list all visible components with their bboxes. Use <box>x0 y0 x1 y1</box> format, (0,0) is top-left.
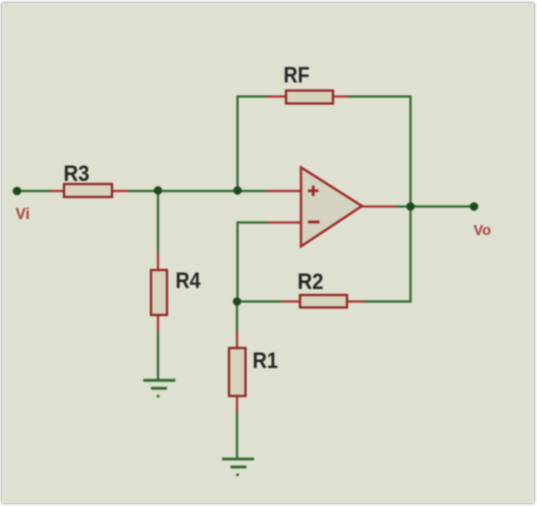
resistor R3 <box>64 184 112 197</box>
wire op-amp plus input lead (red) <box>266 190 301 192</box>
wire node A down to R4 (green) <box>157 191 159 253</box>
resistor R1 <box>229 348 246 396</box>
label RF <box>284 63 310 88</box>
ground under R1 <box>222 459 254 476</box>
label Vo <box>474 223 492 239</box>
wire op-amp minus corner horizontal (green) <box>237 221 268 223</box>
wire R1 to ground (green) <box>236 412 238 458</box>
op-amp U1 body <box>301 167 362 246</box>
label R2 <box>298 269 324 294</box>
label R3 <box>64 161 90 186</box>
svg-text:Vo: Vo <box>474 223 492 239</box>
wire R1 bottom lead (red) <box>236 396 238 412</box>
label Vi <box>16 206 30 223</box>
wire R3 left lead (red) <box>50 190 64 192</box>
resistor RF <box>286 91 333 104</box>
label R1 <box>253 348 279 373</box>
node Vi terminal dot <box>13 187 22 196</box>
wire op-amp output lead (red) <box>362 205 396 207</box>
wire RF right lead (red) <box>333 95 348 97</box>
wire R3 right lead (red) <box>112 190 128 192</box>
wire R4 bottom lead (red) <box>157 315 159 331</box>
svg-text:R3: R3 <box>64 161 90 186</box>
wire R3 to node B (green) <box>128 190 266 192</box>
wire R1 top lead (red) <box>236 331 238 348</box>
wire R4 top lead (red) <box>157 253 159 270</box>
wire R2 row left segment (green) <box>237 300 282 302</box>
svg-text:Vi: Vi <box>16 206 30 223</box>
svg-text:R4: R4 <box>176 268 201 293</box>
svg-text:R2: R2 <box>298 269 324 294</box>
node Vo terminal dot <box>470 202 479 211</box>
wire output to Vo (green) <box>396 205 474 207</box>
node D junction dot <box>233 297 241 305</box>
wire node D down (green) <box>236 302 238 331</box>
wire node B up to RF row (green) <box>236 96 238 191</box>
wire RF row right segment (green) <box>348 95 412 97</box>
node C output junction dot <box>406 202 414 210</box>
resistor R4 <box>151 270 167 315</box>
node B junction dot <box>233 186 241 194</box>
resistor R2 <box>300 295 347 308</box>
svg-text:R1: R1 <box>253 348 279 373</box>
wire minus corner down to node D (green) <box>236 223 238 303</box>
ground under R4 <box>143 380 175 397</box>
op-amp plus pin marker <box>308 186 318 196</box>
wire R2 row right segment (green) <box>364 300 412 302</box>
wire R2 left lead (red) <box>282 300 300 302</box>
svg-text:RF: RF <box>284 63 310 88</box>
label R4 <box>176 268 201 293</box>
wire RF row left segment (green) <box>237 95 267 97</box>
wire RF left lead (red) <box>266 95 286 97</box>
op-amp minus pin marker <box>308 221 319 224</box>
wire R4 to ground (green) <box>157 331 159 380</box>
wire R2 right lead (red) <box>347 300 364 302</box>
wire op-amp minus input lead (red) <box>267 221 301 223</box>
wire Vi to R3 (green) <box>17 190 50 192</box>
node A junction dot <box>154 186 162 194</box>
wire right vertical RF to R2 corner (green) <box>409 96 411 303</box>
